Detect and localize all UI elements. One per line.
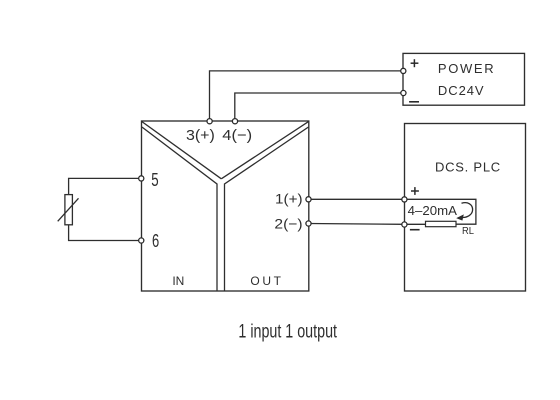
wire terminal 2 to PLC - bbox=[309, 223, 405, 226]
POWER + sign bbox=[411, 59, 419, 67]
PLC + terminal bbox=[402, 197, 407, 202]
PLC + sign bbox=[411, 187, 419, 195]
terminal 4 bbox=[232, 119, 237, 124]
sensor diagonal stroke bbox=[58, 198, 79, 221]
svg-text:5: 5 bbox=[151, 170, 158, 190]
terminal 1 bbox=[306, 197, 311, 202]
svg-text:OUT: OUT bbox=[250, 274, 281, 288]
svg-text:DCS. PLC: DCS. PLC bbox=[435, 160, 500, 175]
POWER - sign bbox=[409, 101, 419, 103]
wire terminal 4 to POWER - bbox=[235, 93, 403, 121]
POWER - terminal bbox=[401, 90, 406, 95]
isolator Y divider lower-left diagonal and left stem bbox=[142, 127, 217, 291]
isolator Y divider upper-right diagonal bbox=[221, 122, 308, 179]
4-20mA current loop wire bbox=[405, 199, 476, 224]
wire terminal 3 to POWER + bbox=[210, 71, 404, 121]
terminal 2 bbox=[306, 221, 311, 226]
isolator module U1 outline bbox=[142, 121, 309, 291]
svg-text:POWER: POWER bbox=[438, 61, 494, 76]
PLC - terminal bbox=[402, 222, 407, 227]
POWER box bbox=[403, 53, 525, 105]
POWER + terminal bbox=[401, 68, 406, 73]
svg-text:IN: IN bbox=[172, 274, 184, 288]
DCS PLC box bbox=[405, 124, 526, 292]
svg-text:4–20mA: 4–20mA bbox=[408, 203, 458, 218]
terminal 3 bbox=[207, 119, 212, 124]
svg-text:4(−): 4(−) bbox=[222, 127, 252, 144]
svg-text:DC24V: DC24V bbox=[438, 83, 484, 98]
svg-text:1 input 1 output: 1 input 1 output bbox=[238, 322, 337, 343]
svg-text:3(+): 3(+) bbox=[186, 127, 215, 144]
wire sensor to terminal 6 bbox=[69, 225, 142, 241]
PLC - sign bbox=[410, 229, 420, 231]
isolator Y divider lower-right diagonal and right stem bbox=[225, 127, 309, 291]
current direction arrow bbox=[456, 203, 472, 221]
svg-text:RL: RL bbox=[462, 225, 474, 237]
svg-text:6: 6 bbox=[152, 231, 159, 251]
wire RL to PLC - terminal bbox=[405, 223, 426, 225]
wire terminal 1 to PLC + bbox=[309, 198, 405, 200]
isolator Y divider upper-left diagonal bbox=[142, 122, 221, 179]
terminal 5 bbox=[139, 176, 144, 181]
sensor resistor body RT bbox=[65, 195, 73, 225]
load resistor RL body bbox=[426, 221, 457, 226]
svg-text:2(−): 2(−) bbox=[274, 216, 302, 232]
svg-text:1(+): 1(+) bbox=[275, 190, 303, 206]
terminal 6 bbox=[139, 238, 144, 243]
wire terminal 5 to sensor bbox=[69, 178, 142, 194]
